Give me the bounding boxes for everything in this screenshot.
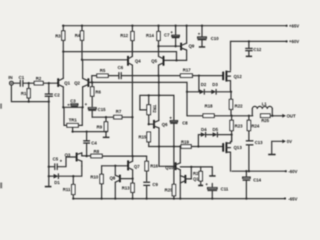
trimmer TR1 [67,117,78,132]
svg-text:C1: C1 [19,75,25,80]
node junction [179,145,181,147]
resistor R14 [146,25,160,47]
svg-text:C7: C7 [164,33,170,38]
wire down to D2 line [198,76,200,92]
transistor Q1 [58,52,70,108]
wire 0V branch [272,141,285,153]
wire long node Q1-collector line [63,52,176,61]
svg-text:Q6: Q6 [162,122,168,127]
node junction Q5 emitter [157,74,159,76]
svg-text:R22: R22 [235,104,243,109]
svg-text:L1: L1 [262,101,268,106]
transistor Q3 [65,152,82,166]
wire TR1 right leg [78,107,82,125]
svg-text:R6: R6 [95,90,101,95]
svg-text:D2: D2 [201,82,207,87]
wire IN to C1 [13,82,20,84]
node 0V terminal [282,139,286,143]
capacitor C14 [243,170,262,200]
wire C1 to R2 [23,82,34,84]
svg-text:R14: R14 [146,33,154,38]
resistor R17 [180,67,192,77]
svg-text:TR2: TR2 [152,105,157,114]
wire Q2-base-line drop to R18 [186,82,188,115]
resistor R18 [203,103,232,117]
resistor R13 [122,179,134,200]
wire R18 line [187,115,203,117]
scan artifact left edge lower [0,183,2,189]
node junction [175,59,177,61]
svg-text:Q5: Q5 [151,58,157,63]
resistor R25 [261,114,285,123]
inductor L1 [252,101,272,116]
resistor R6 [91,81,102,106]
svg-text:R25: R25 [261,118,269,123]
resistor R22 [229,92,243,116]
transistor Q13 MOSFET [223,135,242,172]
resistor R15 [139,132,151,147]
svg-text:Q2: Q2 [74,81,80,86]
svg-text:D1: D1 [54,180,60,185]
node junction C4 column [85,155,87,157]
svg-text:R7: R7 [116,109,122,114]
wire -65V bottom rail [73,198,285,200]
wire R14 to Q9 base [159,45,181,47]
node junction R1 top [28,82,30,84]
node junction [91,81,93,83]
node junction [158,145,160,147]
node junction D2 branch [198,74,200,76]
svg-text:Q4: Q4 [135,58,141,63]
node junction D1 branch [48,175,50,177]
capacitor C4 [83,130,97,156]
svg-text:Q7: Q7 [134,164,140,169]
transistor Q11 [180,167,201,183]
resistor R1 [21,83,30,101]
svg-text:C5: C5 [53,156,59,161]
ground stub right of R21 [211,167,213,175]
wire top +65V rail [63,25,287,27]
diode D1 [49,166,82,185]
node junction on R3 line [62,50,64,52]
node junction C5 branch [48,166,50,168]
svg-text:C4: C4 [91,141,97,146]
svg-text:R15: R15 [139,134,147,139]
resistor R21 [193,167,203,186]
node junction [197,145,199,147]
svg-text:Q10: Q10 [165,165,174,170]
node junction R14 [157,45,159,47]
svg-text:C8: C8 [182,120,188,125]
wire C6 to R17 [121,75,180,77]
svg-text:D5: D5 [213,127,219,132]
wire input return [11,85,48,102]
capacitor C3 [67,98,78,107]
svg-text:D3: D3 [212,82,218,87]
resistor R2 [34,76,43,85]
node junction L1 tap [248,115,250,117]
node -65V terminal [284,197,286,199]
resistor R20 [165,147,176,200]
svg-text:Q12: Q12 [234,74,243,79]
svg-text:+60V: +60V [289,39,299,44]
node junction [173,145,175,147]
svg-text:R9: R9 [97,125,103,130]
capacitor C15 [85,102,106,117]
wire bias staple top [140,95,174,110]
svg-text:C14: C14 [253,177,261,182]
svg-text:R19: R19 [181,139,189,144]
svg-text:Q8: Q8 [110,175,116,180]
svg-text:OUT: OUT [287,114,296,119]
capacitor C7 [164,25,179,48]
node junction [190,166,192,168]
capacitor C6 [118,65,124,79]
svg-text:R8: R8 [94,149,100,154]
transistor Q2 [74,60,92,108]
resistor R10 [90,166,103,200]
capacitor C2 [45,83,61,101]
diode D5 [206,127,232,137]
scan artifact left edge [0,104,2,109]
node junction on R4 line [81,59,83,61]
ground for 0V [268,154,275,156]
svg-text:R10: R10 [90,174,98,179]
svg-text:Q9: Q9 [189,44,195,49]
wire R7 line [92,116,132,118]
svg-text:C2: C2 [54,93,60,98]
svg-text:R17: R17 [183,67,191,72]
svg-text:Q1: Q1 [64,81,70,86]
wire TR1 left leg [64,107,67,125]
wire +60V drop to Q12 drain [230,41,232,70]
svg-text:C15: C15 [98,107,106,112]
transistor Q8 [110,166,134,200]
transistor Q4 [128,41,141,157]
svg-text:+65V: +65V [289,23,299,28]
wire TR1 to R9 bottom [73,131,106,133]
wire Q10 base feed [159,165,175,167]
svg-text:R2: R2 [36,76,42,81]
capacitor C12 [245,40,262,57]
node junction [81,106,83,108]
resistor R4 [75,25,84,60]
wire R17 to Q12 gate [192,75,223,77]
svg-text:-65V: -65V [288,196,297,201]
node IN terminal [8,75,13,85]
wire -60V rail [232,170,286,172]
wire R21 top line [180,166,212,168]
capacitor C9 [143,182,158,200]
node OUT terminal [282,114,286,118]
resistor R11 [63,175,75,200]
svg-text:R18: R18 [205,103,213,108]
transistor Q6 [148,94,169,166]
resistor R16 [145,156,159,181]
wire Q2-collector to Q4 base [82,59,128,61]
wire R5 to C6 [108,75,119,77]
svg-text:R5: R5 [100,68,106,73]
resistor R24 [247,116,260,140]
resistor R5 [97,68,108,77]
transistor Q5 [151,46,163,120]
node junction main out node [230,115,232,117]
wire R2 to Q1 base [43,82,57,84]
svg-text:Q13: Q13 [234,145,243,150]
node -60V terminal [285,170,287,172]
node junction C2 top [48,82,50,84]
wire out node [232,115,253,117]
node +60V terminal [286,40,288,42]
svg-text:R24: R24 [251,123,259,128]
wire tail line C3 [63,106,82,108]
svg-text:R1: R1 [21,91,27,96]
transistor Q10 [165,147,181,200]
diode D2 [186,82,207,94]
resistor R23 [230,116,243,142]
svg-text:C6: C6 [118,65,124,70]
svg-text:D4: D4 [201,127,207,132]
node junction R7 right end [131,116,133,118]
capacitor C5 [49,156,66,169]
svg-text:R13: R13 [122,186,130,191]
resistor R8 [91,149,147,158]
resistor R7 [114,109,122,119]
wire Q2 base line to diodes [92,81,187,83]
svg-text:R16: R16 [150,163,158,168]
wire return down to ground [48,102,50,186]
resistor R19 [181,139,191,148]
capacitor C1 [19,75,25,86]
trimmer TR2 [147,94,157,124]
node junction D4 line [230,133,232,135]
ground [45,186,52,188]
wire Q2 base node up and feedback line [92,76,97,83]
node junction Q8 collector [114,165,116,167]
svg-text:IN: IN [8,75,12,80]
svg-text:C12: C12 [253,47,261,52]
wire Q7 base line [102,165,128,167]
svg-text:C11: C11 [221,186,229,191]
svg-text:R23: R23 [235,123,243,128]
transistor Q12 MOSFET [223,71,242,92]
transistor Q9 [181,25,195,61]
wire Q3 collector line [82,155,91,157]
resistor R9 [97,116,110,138]
svg-text:C13: C13 [255,140,263,145]
diode D3 [204,82,232,94]
svg-text:TR1: TR1 [69,117,78,122]
svg-text:R12: R12 [120,33,128,38]
capacitor C13 [246,140,263,172]
wire Q5 base node [164,59,187,61]
node junction [62,106,64,108]
capacitor C10 [198,25,220,48]
svg-text:C3: C3 [70,98,76,103]
resistor R12 [120,25,134,57]
svg-text:R3: R3 [55,33,61,38]
svg-text:0V: 0V [287,139,292,144]
diode D4 [198,127,207,146]
svg-text:R11: R11 [63,187,71,192]
wire +60V rail [231,40,287,42]
svg-text:C9: C9 [152,182,158,187]
svg-text:C10: C10 [211,36,219,41]
node +65V terminal [286,25,288,27]
wire staple jog to TR2 [140,109,147,111]
capacitor C11 [205,182,228,200]
svg-text:-60V: -60V [288,169,297,174]
resistor R3 [55,25,65,52]
transistor Q7 [128,155,140,179]
capacitor C8 [169,95,188,146]
wire gate line lower [149,146,224,148]
